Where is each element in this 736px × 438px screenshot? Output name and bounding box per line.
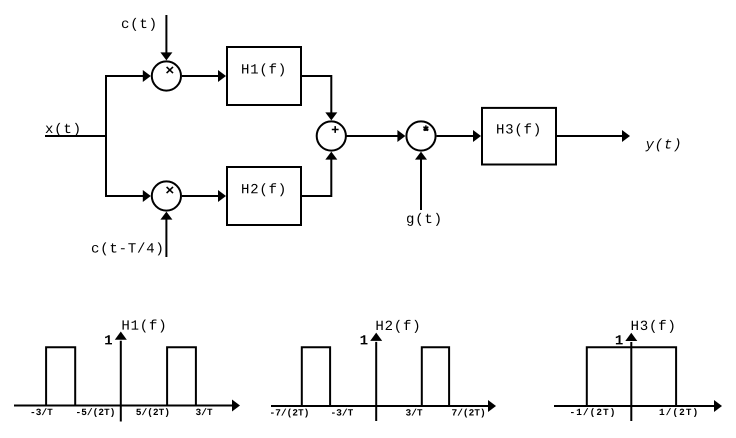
plot2 tick label -7/(2T) <box>271 409 308 418</box>
plot2 tick label 7/(2T) <box>452 409 484 418</box>
plot2 frequency axis <box>271 400 496 412</box>
plot2 left passband pulse <box>302 347 330 406</box>
plot1 frequency axis <box>14 400 240 412</box>
label x(t) <box>46 123 79 136</box>
multiplier M2 <box>152 181 181 210</box>
plot3 title H3(f) <box>632 320 674 333</box>
wire M3 to H3 <box>437 130 481 142</box>
label c(t-T/4) <box>92 242 162 255</box>
plot1 left passband pulse <box>46 347 75 405</box>
wire M1 to H1 <box>182 70 226 82</box>
plot1 title H1(f) <box>123 320 165 333</box>
plot3 frequency axis <box>554 400 722 412</box>
wire summer to M3 <box>346 130 405 142</box>
summer S1 <box>317 121 346 150</box>
wire H3 output y(t) <box>557 130 630 142</box>
label g(t) <box>407 213 440 226</box>
wire H2 to summer <box>301 152 337 196</box>
plot1 tick label -3/T <box>32 408 53 415</box>
wire branch to M1 <box>106 70 151 82</box>
wire branch to M2 <box>106 190 151 202</box>
plot1 vertical axis <box>115 332 127 422</box>
plot2 vertical axis <box>370 333 382 421</box>
plot1 amplitude label 1 <box>105 335 112 344</box>
block H2(f) <box>227 167 301 225</box>
plot3 amplitude label 1 <box>616 335 623 344</box>
multiplier M3 <box>406 121 435 150</box>
plot2 title H2(f) <box>377 320 419 333</box>
label c(t) <box>122 18 155 31</box>
wire branch vertical <box>105 75 107 197</box>
wire x(t) input <box>45 135 106 137</box>
wire g(t) up into M3 <box>415 152 427 210</box>
block H3(f) <box>482 108 556 165</box>
plot3 tick label 1/(2T) <box>660 408 697 417</box>
wire c(t-T/4) up into M2 <box>160 212 172 257</box>
label y(t) <box>645 138 679 151</box>
plot3 lowpass pulse <box>587 347 676 406</box>
plot1 right passband pulse <box>167 347 196 405</box>
wire H1 to summer <box>301 76 337 120</box>
plot2 amplitude label 1 <box>361 335 368 344</box>
plot2 right passband pulse <box>422 347 449 406</box>
plot3 tick label -1/(2T) <box>571 408 614 417</box>
plot2 tick label 3/T <box>406 409 422 416</box>
plot3 vertical axis <box>625 333 637 421</box>
wire c(t) down into multiplier M1 <box>160 15 172 60</box>
plot1 tick label 3/T <box>196 408 212 415</box>
plot1 tick label -5/(2T) <box>77 408 114 417</box>
wire M2 to H2 <box>182 190 226 202</box>
plot2 tick label -3/T <box>332 409 353 416</box>
multiplier M1 <box>152 61 181 90</box>
plot1 tick label 5/(2T) <box>136 408 168 417</box>
block H1(f) <box>227 47 301 105</box>
